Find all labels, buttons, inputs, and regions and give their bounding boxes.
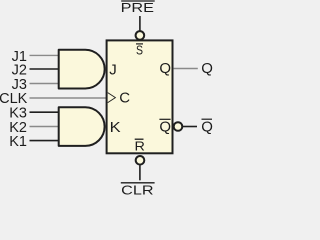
wire K1 bbox=[30, 140, 61, 142]
pin Q-bar overline bbox=[159, 118, 170, 120]
wire K2 bbox=[30, 126, 61, 128]
JK flip-flop U1 body bbox=[107, 40, 173, 153]
PRE overline bbox=[121, 0, 155, 2]
R overline bbox=[135, 138, 144, 140]
external Q-bar overline bbox=[202, 118, 213, 120]
svg-text:J: J bbox=[109, 61, 117, 78]
wire J2 bbox=[30, 68, 61, 70]
wire Q-bar output bbox=[182, 126, 197, 128]
CLR bubble (active-low R input) bbox=[136, 156, 145, 165]
svg-text:K: K bbox=[110, 119, 121, 136]
AND gate G2 (K inputs) bbox=[59, 107, 105, 146]
S overline bbox=[136, 43, 143, 45]
svg-text:Q: Q bbox=[159, 60, 171, 77]
svg-text:PRE: PRE bbox=[121, 0, 155, 15]
wire CLK bbox=[30, 97, 108, 99]
svg-text:CLR: CLR bbox=[121, 183, 153, 197]
PRE bubble (active-low S input) bbox=[136, 31, 145, 40]
Q-bar bubble bbox=[174, 122, 183, 131]
wire Q output bbox=[174, 68, 198, 70]
svg-text:Q: Q bbox=[201, 118, 213, 135]
wire J3 bbox=[30, 83, 61, 85]
wire PRE bbox=[139, 16, 141, 31]
wire J1 bbox=[30, 54, 61, 56]
CLR overline bbox=[121, 182, 155, 184]
AND gate G1 (J inputs) bbox=[59, 50, 105, 89]
svg-text:Q: Q bbox=[201, 60, 213, 77]
wire K3 bbox=[30, 111, 61, 113]
wire CLR bbox=[139, 166, 141, 181]
clock edge-trigger symbol bbox=[108, 93, 116, 103]
svg-text:Q: Q bbox=[159, 119, 171, 136]
svg-text:C: C bbox=[119, 89, 130, 106]
svg-text:K1: K1 bbox=[9, 134, 27, 150]
svg-text:R: R bbox=[135, 138, 145, 153]
svg-text:S: S bbox=[136, 43, 143, 58]
